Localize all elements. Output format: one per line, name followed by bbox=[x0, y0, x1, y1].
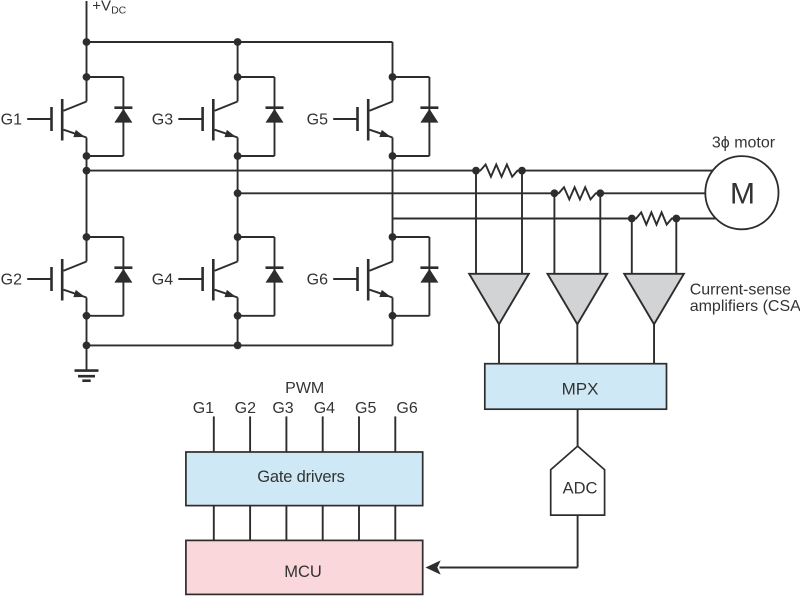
wire: phase B line (left) bbox=[238, 192, 555, 194]
wire: CSA1 + input bbox=[475, 171, 477, 274]
op-amp CSA2 (current-sense amplifier) bbox=[548, 274, 608, 324]
wire: PWM G5 into gate drivers bbox=[358, 416, 360, 452]
wire: phase C line to motor bbox=[676, 218, 716, 220]
diode D-G1 (freewheel) bbox=[87, 77, 133, 156]
wire: CSA2 output to MPX bbox=[576, 324, 578, 364]
junction: R2 right terminal bbox=[596, 189, 604, 197]
MCU block bbox=[186, 540, 423, 594]
svg-text:G4: G4 bbox=[152, 272, 173, 289]
wire: CSA3 - input bbox=[675, 219, 677, 274]
node G1 collector bbox=[83, 73, 91, 81]
wire: G3 collector feed bbox=[237, 42, 239, 77]
wire: phase A line (left) bbox=[87, 170, 477, 172]
transistor Q-G3 (IGBT) bbox=[178, 77, 237, 156]
svg-text:G3: G3 bbox=[272, 400, 293, 417]
wire: phase B line to motor bbox=[600, 192, 705, 194]
svg-text:amplifiers (CSA): amplifiers (CSA) bbox=[690, 298, 800, 315]
diode D-G6 (freewheel) bbox=[393, 237, 439, 316]
ADC block bbox=[551, 446, 605, 515]
wire: gate drivers to MCU line 3 bbox=[285, 506, 287, 541]
wire: PWM G4 into gate drivers bbox=[322, 416, 324, 452]
junction: bus / G1 leg bbox=[83, 38, 91, 46]
svg-text:Current-sense: Current-sense bbox=[690, 281, 791, 298]
wire: PWM G3 into gate drivers bbox=[285, 416, 287, 452]
op-amp CSA3 (current-sense amplifier) bbox=[624, 274, 684, 324]
node G2 collector bbox=[83, 233, 91, 241]
svg-text:M: M bbox=[730, 177, 755, 210]
wire: CSA3 output to MPX bbox=[653, 324, 655, 364]
node G5 collector bbox=[389, 73, 397, 81]
wire: CSA3 + input bbox=[631, 219, 633, 274]
svg-text:G2: G2 bbox=[1, 272, 22, 289]
svg-text:G1: G1 bbox=[1, 112, 22, 129]
wire: MPX output to ADC bbox=[577, 409, 579, 446]
wire: +VDC supply lead bbox=[86, 1, 88, 42]
node G3 collector bbox=[234, 73, 242, 81]
node G6 emitter bbox=[389, 312, 397, 320]
wire: G1 collector feed bbox=[86, 42, 88, 77]
transistor Q-G6 (IGBT) bbox=[333, 237, 392, 316]
wire: G5 collector feed bbox=[392, 42, 394, 77]
svg-text:MCU: MCU bbox=[284, 563, 322, 581]
junction: phase B node bbox=[234, 189, 242, 197]
junction: R3 left terminal bbox=[628, 215, 636, 223]
junction: R3 right terminal bbox=[672, 215, 680, 223]
transistor Q-G2 (IGBT) bbox=[27, 237, 86, 316]
node G6 collector bbox=[389, 233, 397, 241]
wire: CSA2 - input bbox=[599, 193, 601, 273]
wire: lower emitter 2 to negative rail bbox=[237, 316, 239, 346]
wire: PWM G6 into gate drivers bbox=[394, 416, 396, 452]
wire: ADC output to MCU bbox=[440, 567, 578, 569]
svg-text:G3: G3 bbox=[152, 112, 173, 129]
wire: G2 collector feed bbox=[86, 171, 88, 237]
svg-text:MPX: MPX bbox=[562, 379, 599, 398]
ground bbox=[75, 345, 99, 380]
multiplexer MPX bbox=[485, 364, 667, 410]
diode D-G4 (freewheel) bbox=[238, 237, 284, 316]
wire: lower emitter 3 to negative rail bbox=[392, 316, 394, 346]
node G2 emitter bbox=[83, 312, 91, 320]
junction: R1 left terminal bbox=[472, 167, 480, 175]
svg-text:G6: G6 bbox=[307, 272, 328, 289]
wire: CSA1 - input bbox=[521, 171, 523, 274]
svg-text:Gate drivers: Gate drivers bbox=[257, 468, 344, 486]
wire: PWM G1 into gate drivers bbox=[213, 416, 215, 452]
wire: phase A line to motor bbox=[522, 170, 713, 172]
svg-text:G1: G1 bbox=[193, 400, 214, 417]
diode D-G2 (freewheel) bbox=[87, 237, 133, 316]
wire: DC bus top rail bbox=[87, 41, 393, 43]
wire: gate drivers to MCU line 1 bbox=[213, 506, 215, 541]
node G4 collector bbox=[234, 233, 242, 241]
diode D-G3 (freewheel) bbox=[238, 77, 284, 156]
transistor Q-G4 (IGBT) bbox=[178, 237, 237, 316]
svg-text:ADC: ADC bbox=[563, 480, 598, 498]
transistor Q-G5 (IGBT) bbox=[333, 77, 392, 156]
junction: R1 right terminal bbox=[518, 167, 526, 175]
svg-text:G6: G6 bbox=[396, 400, 417, 417]
wire: lower emitter 1 to negative rail bbox=[86, 316, 88, 346]
wire: ADC output down bbox=[577, 515, 579, 567]
wire: gate drivers to MCU line 2 bbox=[249, 506, 251, 541]
svg-text:G5: G5 bbox=[307, 112, 328, 129]
wire: G5 emitter down through phase C tee bbox=[392, 156, 394, 219]
diode D-G5 (freewheel) bbox=[393, 77, 439, 156]
junction: bus / G3 leg bbox=[234, 38, 242, 46]
wire: negative bus rail bbox=[87, 344, 393, 346]
wire: CSA2 + input bbox=[553, 193, 555, 273]
junction: phase A node bbox=[83, 167, 91, 175]
svg-text:G5: G5 bbox=[355, 400, 376, 417]
svg-text:PWM: PWM bbox=[285, 380, 324, 397]
gate drivers block bbox=[186, 452, 423, 506]
motor (3-phase) bbox=[705, 156, 778, 229]
node G5 emitter bbox=[389, 152, 397, 160]
node G4 emitter bbox=[234, 312, 242, 320]
op-amp CSA1 (current-sense amplifier) bbox=[469, 274, 529, 324]
wire: CSA1 output to MPX bbox=[498, 324, 500, 364]
svg-text:G4: G4 bbox=[314, 400, 335, 417]
junction: rail / ground leg bbox=[83, 342, 91, 350]
wire: G1 emitter to phase A node bbox=[86, 156, 88, 171]
arrowhead into MCU bbox=[426, 560, 441, 574]
wire: PWM G2 into gate drivers bbox=[249, 416, 251, 452]
svg-text:G2: G2 bbox=[235, 400, 256, 417]
junction: R2 left terminal bbox=[551, 189, 559, 197]
resistor R3 (shunt) bbox=[632, 212, 677, 224]
svg-text:3ϕ motor: 3ϕ motor bbox=[712, 135, 776, 152]
node G1 emitter bbox=[83, 152, 91, 160]
wire: gate drivers to MCU line 5 bbox=[358, 506, 360, 541]
wire: gate drivers to MCU line 6 bbox=[394, 506, 396, 541]
junction: rail / G4 leg bbox=[234, 342, 242, 350]
wire: G6 collector feed bbox=[392, 219, 394, 238]
node G3 emitter bbox=[234, 152, 242, 160]
wire: G4 collector feed bbox=[237, 193, 239, 237]
resistor R1 (shunt) bbox=[476, 165, 522, 177]
wire: phase C line (left) bbox=[393, 218, 632, 220]
resistor R2 (shunt) bbox=[554, 187, 600, 199]
wire: gate drivers to MCU line 4 bbox=[322, 506, 324, 541]
transistor Q-G1 (IGBT) bbox=[27, 77, 86, 156]
wire: G3 emitter to phase B node bbox=[237, 156, 239, 193]
